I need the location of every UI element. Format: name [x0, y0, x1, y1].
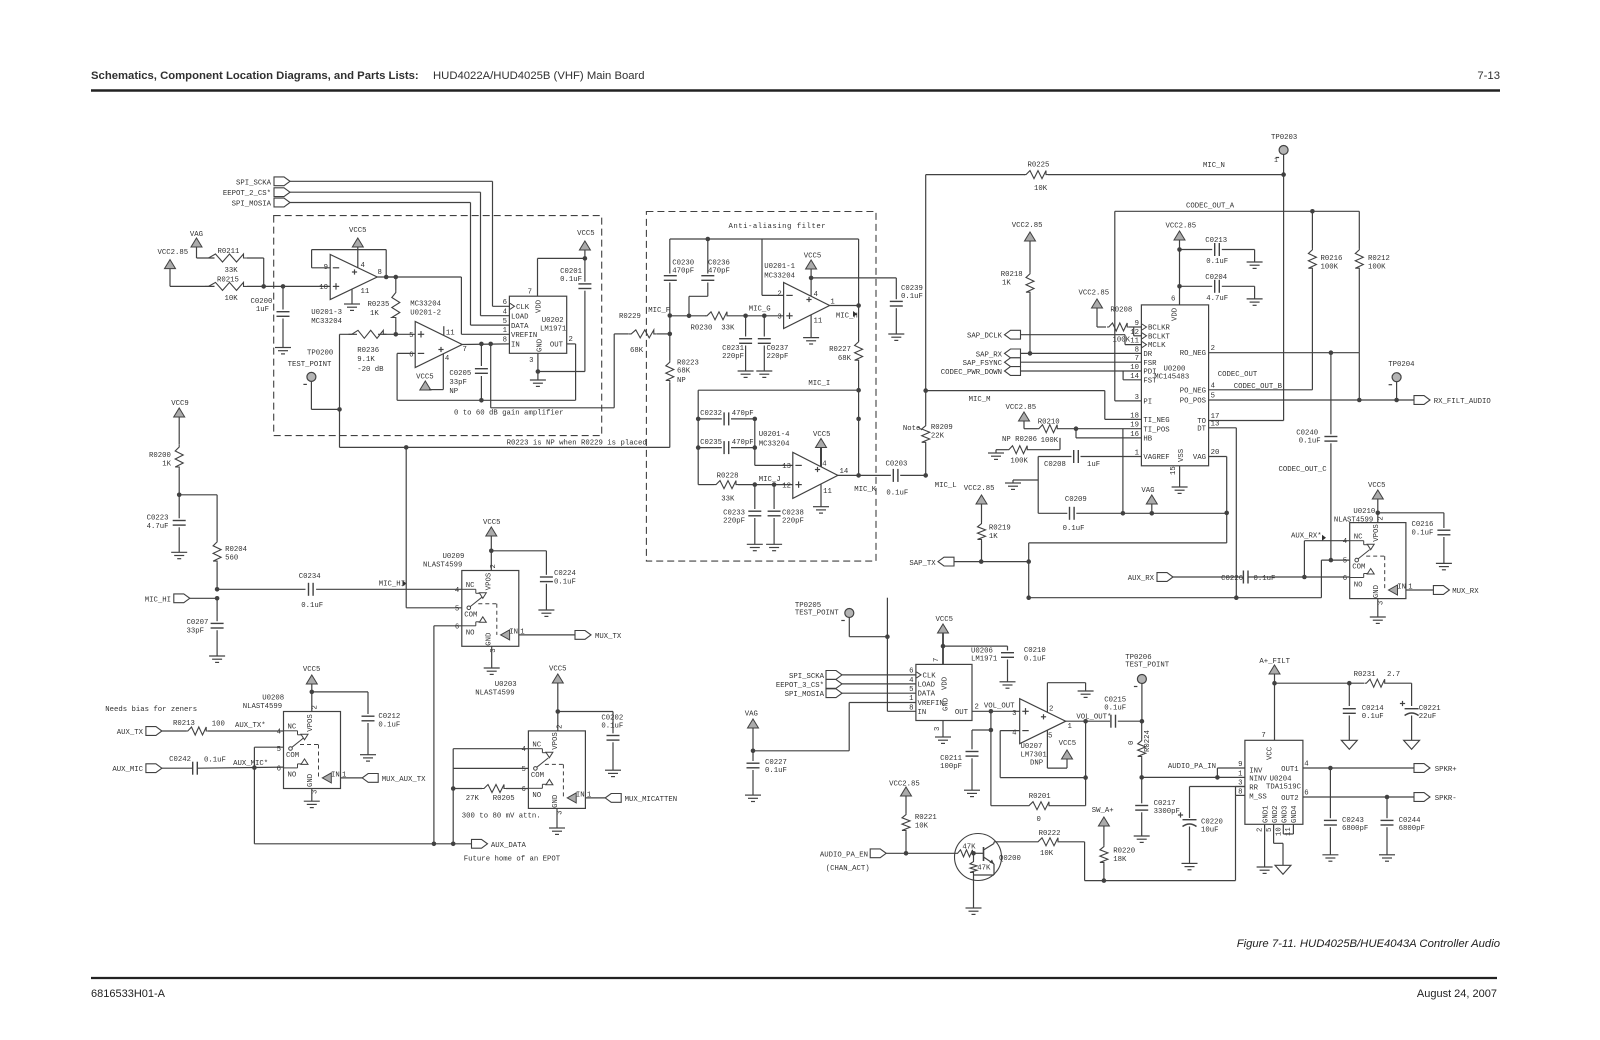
wire BCLKR-BCLKT tie [1134, 327, 1142, 336]
svg-text:1: 1 [503, 327, 508, 335]
wire TP0206 stem [1141, 684, 1143, 721]
wire R0210 to TI_POS [1059, 426, 1141, 431]
svg-text:0.1uF: 0.1uF [554, 579, 576, 587]
svg-text:R0224: R0224 [1144, 729, 1152, 752]
wire vertical to IN [887, 598, 916, 712]
svg-text:C0202: C0202 [601, 715, 623, 723]
svg-text:IN: IN [1397, 584, 1406, 592]
wire TP0204 stem [1396, 382, 1398, 400]
svg-text:MUX_TX: MUX_TX [595, 633, 622, 641]
connector EEPOT_3_CS* [776, 680, 842, 690]
capacitor C0205 [449, 344, 488, 403]
svg-text:RO_NEG: RO_NEG [1180, 350, 1206, 358]
connector EEPOT_2_CS* [223, 188, 290, 198]
svg-text:AUX_MIC: AUX_MIC [112, 766, 143, 774]
capacitor C0240 [1296, 353, 1337, 560]
net label CODEC_OUT_B [1234, 383, 1283, 391]
svg-text:C0227: C0227 [765, 759, 787, 767]
svg-text:SPI_MOSIA: SPI_MOSIA [785, 691, 825, 699]
power VCC2.85 R0218 [1012, 222, 1043, 241]
svg-text:COM: COM [531, 772, 544, 780]
svg-text:MIC_I: MIC_I [808, 380, 830, 388]
power SW_A+ [1092, 807, 1114, 845]
wire U0208 IN to MUX_AUX_TX [341, 777, 363, 779]
wire MIC_F row [670, 314, 706, 319]
svg-text:VCC5: VCC5 [804, 253, 822, 261]
wire AUX_DATA bus [254, 842, 471, 847]
svg-text:C0216: C0216 [1412, 521, 1434, 529]
connector AUX_RX [1128, 573, 1173, 583]
svg-text:0.1uF: 0.1uF [1206, 258, 1228, 266]
svg-text:R0213: R0213 [173, 720, 195, 728]
svg-text:CLK: CLK [923, 672, 937, 680]
svg-text:VCC: VCC [1267, 746, 1275, 760]
capacitor C0201 [560, 258, 591, 371]
wire PO_POS RX_FILT row [1209, 398, 1414, 403]
svg-text:DR: DR [1143, 351, 1152, 359]
net label MIC_F [648, 307, 672, 318]
net label CODEC_OUT_A [1186, 203, 1235, 211]
wire INV jog [1217, 768, 1245, 777]
chassis ground U0204 gnd34 [1275, 865, 1291, 874]
svg-text:VCC5: VCC5 [349, 227, 367, 235]
svg-text:NO: NO [288, 772, 297, 780]
svg-text:DATA: DATA [918, 691, 936, 699]
wire R0223 bottom [669, 382, 671, 447]
power VCC5 U0201-1 [804, 253, 822, 297]
svg-text:MUX_RX: MUX_RX [1452, 588, 1479, 596]
svg-text:220pF: 220pF [723, 518, 745, 526]
net label MIC_N [1203, 162, 1225, 170]
svg-text:4: 4 [909, 677, 914, 685]
svg-text:VPOS: VPOS [307, 714, 315, 732]
svg-text:68K: 68K [838, 355, 852, 363]
svg-text:2: 2 [312, 705, 320, 709]
svg-text:U0206: U0206 [971, 648, 993, 656]
svg-text:100K: 100K [1321, 264, 1339, 272]
svg-text:PI: PI [1143, 399, 1152, 407]
svg-text:LM1971: LM1971 [540, 326, 567, 334]
svg-text:470pF: 470pF [708, 268, 730, 276]
wire U0203 NC COM net [451, 749, 529, 844]
svg-text:NLAST4599: NLAST4599 [423, 561, 462, 569]
dashed box anti-aliasing filter [646, 212, 876, 562]
svg-text:OUT: OUT [955, 709, 969, 717]
resistor R0216 [1308, 211, 1342, 389]
svg-text:VAG: VAG [745, 711, 758, 719]
svg-text:9: 9 [1238, 761, 1242, 769]
U0200 right pin names [1180, 350, 1207, 462]
footer rule [91, 977, 1497, 979]
ground C0243 [1322, 855, 1338, 861]
wire VAGREF corner down [1037, 457, 1039, 514]
wire MIC_I row [698, 390, 858, 484]
capacitor C0232 [700, 410, 754, 425]
wire R0227 to MIC_I [856, 362, 861, 421]
power VCC5 U0210 [1368, 482, 1386, 523]
svg-text:VAGREF: VAGREF [1143, 454, 1169, 462]
header rule [91, 89, 1500, 91]
IC U0208 NLAST4599 box [284, 712, 341, 789]
header title [91, 70, 645, 82]
capacitor C0211 [940, 752, 978, 791]
svg-text:R0209: R0209 [931, 424, 953, 432]
svg-text:TEST_POINT: TEST_POINT [1125, 662, 1169, 670]
wire VDD supply [1177, 240, 1182, 305]
capacitor C0242 [169, 756, 226, 775]
svg-text:8: 8 [1135, 346, 1139, 354]
svg-text:R0205: R0205 [493, 795, 515, 803]
resistor R0204 [213, 495, 248, 590]
power VCC5 U0206 [936, 616, 954, 664]
svg-text:NP: NP [677, 377, 686, 385]
svg-text:7: 7 [463, 346, 467, 354]
svg-text:10uF: 10uF [1201, 827, 1219, 835]
U0206 pin numbers [909, 658, 979, 731]
footer date [1417, 988, 1497, 1000]
wire VCC5 to C0239 [811, 277, 896, 279]
svg-text:C0226: C0226 [1221, 575, 1243, 583]
svg-text:AUX_DATA: AUX_DATA [491, 842, 527, 850]
wire R0231 right [1387, 683, 1412, 706]
svg-text:2.7: 2.7 [1387, 671, 1400, 679]
svg-text:10: 10 [319, 284, 328, 292]
U0200 name [1154, 366, 1189, 382]
svg-text:INV: INV [1249, 768, 1263, 776]
svg-text:COM: COM [286, 752, 299, 760]
ground C0233 [747, 544, 763, 550]
svg-text:BCLKT: BCLKT [1148, 333, 1171, 341]
resistor R0225 [1024, 162, 1049, 194]
svg-text:C0212: C0212 [378, 713, 400, 721]
pin stub U0201-2 pin11 [443, 326, 445, 335]
resistor R0228 [698, 473, 793, 504]
capacitor C0216 [1412, 521, 1451, 563]
note future home [464, 856, 561, 864]
svg-text:TDA1519C: TDA1519C [1266, 784, 1302, 792]
svg-text:VCC5: VCC5 [549, 666, 567, 674]
svg-text:10K: 10K [225, 295, 239, 303]
svg-text:5: 5 [909, 686, 913, 694]
wire MOSIA to DATA [842, 692, 916, 694]
ground C0217 [1134, 836, 1150, 842]
ground C0220 [1182, 863, 1198, 869]
svg-text:11: 11 [814, 318, 823, 326]
svg-text:33K: 33K [225, 267, 239, 275]
wire MIC_HI to U0209 COM [406, 447, 462, 607]
svg-text:VPOS: VPOS [1373, 524, 1381, 542]
svg-text:C0200: C0200 [251, 298, 273, 306]
svg-text:4: 4 [1343, 538, 1348, 546]
label gain amplifier [454, 410, 563, 418]
svg-text:4: 4 [277, 728, 282, 736]
wire SW_A+ row [1085, 878, 1236, 883]
svg-text:-20 dB: -20 dB [357, 366, 384, 374]
resistor R0230 [691, 312, 735, 333]
svg-text:R0227: R0227 [829, 346, 851, 354]
svg-text:5: 5 [522, 766, 526, 774]
svg-text:AUX_TX*: AUX_TX* [235, 722, 266, 730]
svg-text:C0209: C0209 [1065, 496, 1087, 504]
svg-text:R0204: R0204 [225, 546, 248, 554]
svg-text:100K: 100K [1368, 264, 1386, 272]
svg-text:GND: GND [307, 773, 315, 787]
svg-text:6: 6 [909, 668, 913, 676]
IC U0202 LM1971 box [509, 296, 566, 353]
svg-text:SAP_TX: SAP_TX [909, 560, 936, 568]
power VCC5 U0203 [549, 666, 567, 731]
svg-text:R0218: R0218 [1001, 271, 1023, 279]
svg-text:CODEC_OUT_A: CODEC_OUT_A [1186, 203, 1235, 211]
capacitor C0234 [299, 573, 323, 610]
resistor R0201 [991, 793, 1086, 824]
ground C0210 [1000, 682, 1016, 688]
svg-text:6800pF: 6800pF [1399, 825, 1425, 833]
svg-text:R0211: R0211 [218, 248, 241, 256]
svg-text:BCLKR: BCLKR [1148, 325, 1171, 333]
svg-text:5: 5 [1211, 393, 1215, 401]
svg-text:0.1uF: 0.1uF [1362, 713, 1384, 721]
svg-text:1: 1 [1274, 157, 1278, 164]
capacitor C0207 [211, 598, 224, 656]
svg-text:3: 3 [1135, 394, 1139, 402]
svg-text:U0201-1: U0201-1 [764, 263, 795, 271]
svg-text:VDD: VDD [536, 299, 544, 313]
wire EEPOT to LOAD [842, 683, 916, 685]
capacitor C0213 [1180, 237, 1255, 266]
wire VCC to C0216 [1378, 513, 1444, 528]
svg-text:8: 8 [378, 269, 382, 277]
wire C0209 bus [1038, 511, 1227, 516]
svg-text:4: 4 [503, 309, 508, 317]
connector SPI_SCKA [236, 177, 290, 187]
svg-text:VCC5: VCC5 [416, 374, 434, 382]
svg-text:NINV: NINV [1249, 776, 1267, 784]
ground C0207 [209, 656, 225, 662]
svg-text:2: 2 [1049, 706, 1053, 714]
svg-text:C0203: C0203 [886, 461, 908, 469]
svg-text:TI_POS: TI_POS [1143, 426, 1170, 434]
ground U0201-4 [813, 507, 829, 513]
svg-text:8: 8 [503, 337, 507, 345]
svg-text:3: 3 [312, 790, 320, 794]
U0202 pin numbers [503, 289, 573, 366]
svg-text:1K: 1K [989, 533, 998, 541]
capacitor C0237 [758, 316, 789, 371]
capacitor C0226 [1221, 571, 1275, 584]
wire SAP_RX to DR [1021, 351, 1142, 356]
wire U0201-3 out to VREFIN [386, 277, 509, 334]
svg-text:C0220: C0220 [1201, 819, 1223, 827]
U0200 VDD VSS [1170, 296, 1186, 476]
svg-text:U0204: U0204 [1270, 776, 1293, 784]
svg-text:AUDIO_PA_IN: AUDIO_PA_IN [1168, 763, 1216, 771]
svg-text:9: 9 [1135, 320, 1139, 328]
svg-text:3: 3 [1238, 780, 1242, 788]
connector SAP_DCLK [967, 330, 1021, 340]
svg-text:RX_FILT_AUDIO: RX_FILT_AUDIO [1434, 398, 1492, 406]
svg-text:R0236: R0236 [357, 347, 379, 355]
svg-text:GND: GND [485, 632, 493, 646]
svg-text:5: 5 [455, 605, 459, 613]
svg-text:10K: 10K [1040, 850, 1054, 858]
svg-text:AUX_TX: AUX_TX [117, 729, 144, 737]
svg-text:0.1uF: 0.1uF [1063, 525, 1085, 533]
U0204 gnd pin names [1263, 805, 1300, 823]
svg-text:6: 6 [1171, 296, 1175, 304]
svg-text:100pF: 100pF [940, 763, 962, 771]
IC U0203 NLAST4599 box [528, 731, 585, 809]
dashed box 0-60dB gain amplifier [274, 216, 602, 436]
svg-text:3: 3 [529, 357, 533, 365]
wire R0222 right [1060, 842, 1085, 881]
IC U0209 interior [423, 553, 525, 653]
svg-text:R0212: R0212 [1368, 255, 1390, 263]
svg-text:R0229: R0229 [619, 313, 641, 321]
capacitor C0233 [723, 485, 761, 545]
svg-text:VCC5: VCC5 [577, 230, 595, 238]
resistor R0231 [1354, 671, 1401, 687]
capacitor C0208 [1044, 450, 1100, 469]
capacitor C0209 [1063, 496, 1087, 533]
wire plus input row [340, 332, 416, 337]
svg-text:5: 5 [503, 318, 507, 326]
ground C0239 [888, 334, 904, 340]
svg-text:C0231: C0231 [722, 345, 745, 353]
svg-text:GND: GND [552, 794, 560, 808]
resistor R0223 [666, 334, 699, 385]
svg-text:OUT2: OUT2 [1281, 795, 1299, 803]
IC U0200 MC145483 box [1141, 305, 1208, 466]
power VCC5 U0207 [1047, 731, 1076, 769]
svg-text:R0235: R0235 [368, 301, 390, 309]
svg-text:5: 5 [409, 332, 413, 340]
label C0207 [187, 619, 209, 636]
wire feedback U0207 [1000, 721, 1088, 806]
net label AUX_TX* [235, 722, 266, 730]
wire R0211 to node [247, 258, 264, 286]
ground U0202 [530, 380, 546, 386]
header page number [1477, 70, 1500, 82]
svg-text:NO: NO [1354, 581, 1363, 589]
svg-text:C0237: C0237 [767, 345, 789, 353]
svg-text:GND: GND [537, 338, 545, 352]
net label MIC_HI [379, 581, 407, 589]
svg-text:2: 2 [490, 564, 498, 568]
connector AUX_MIC [112, 764, 162, 774]
svg-text:TP0200: TP0200 [307, 350, 333, 358]
svg-text:TI_NEG: TI_NEG [1143, 417, 1169, 425]
svg-text:MIC_M: MIC_M [969, 396, 991, 404]
power VCC2.85 left [158, 249, 189, 269]
svg-text:0.1uF: 0.1uF [378, 722, 400, 730]
svg-text:AUX_MIC*: AUX_MIC* [233, 760, 268, 768]
svg-text:C0236: C0236 [708, 260, 730, 268]
svg-text:VCC5: VCC5 [936, 616, 954, 624]
svg-text:MIC_F: MIC_F [648, 307, 670, 315]
svg-text:VCC9: VCC9 [171, 400, 189, 408]
wire IN node down to R0229 row [491, 344, 615, 408]
svg-text:100K: 100K [1010, 458, 1028, 466]
wire SAP_TX row [954, 559, 1029, 564]
capacitor C0223 [147, 495, 186, 553]
capacitor C0230 [664, 260, 694, 334]
wire SPI_SCKA to U0202 CLK [290, 181, 509, 306]
wire VSS ground [1172, 466, 1188, 494]
wire R0208 to BCLKR [1129, 326, 1141, 328]
resistor R0227 [829, 340, 863, 363]
svg-text:4: 4 [1304, 760, 1309, 768]
wire C0232 feedback row [696, 417, 757, 422]
svg-text:TEST_POINT: TEST_POINT [288, 361, 332, 369]
capacitor C0235 [700, 439, 754, 454]
wire OUT1 SPKR+ [1303, 766, 1414, 771]
connector MUX_RX [1433, 586, 1479, 596]
ground C0211 [964, 790, 980, 796]
wire C0215 right [1118, 719, 1144, 724]
wire MIC_HI stub [190, 587, 220, 601]
capacitor C0239 [890, 278, 923, 334]
wire VAGREF row [1038, 456, 1141, 458]
ground U0208 [304, 789, 320, 808]
svg-text:VCC5: VCC5 [1368, 482, 1386, 490]
svg-text:7: 7 [1261, 732, 1265, 740]
svg-text:C0208: C0208 [1044, 461, 1066, 469]
wire AUX_MIC to C0242 [162, 767, 193, 769]
svg-text:LOAD: LOAD [918, 681, 936, 689]
wire MIC_G row [729, 314, 784, 319]
ground U0210 [1370, 599, 1386, 624]
svg-text:220pF: 220pF [767, 353, 789, 361]
net label CODEC_OUT [1218, 371, 1258, 379]
svg-text:470pF: 470pF [732, 439, 754, 447]
resistor R0222 [1036, 830, 1061, 858]
connector SPKR- [1414, 793, 1457, 803]
power VAG 2 [745, 711, 759, 729]
svg-text:IN: IN [511, 341, 520, 349]
wire to R0229 [614, 334, 629, 408]
svg-text:3: 3 [1378, 601, 1386, 605]
svg-text:C0221: C0221 [1419, 705, 1442, 713]
svg-text:7-13: 7-13 [1477, 70, 1500, 82]
svg-text:VCC2.85: VCC2.85 [1079, 290, 1110, 298]
svg-text:2: 2 [1211, 345, 1215, 353]
resistor R0221 [902, 796, 937, 853]
svg-text:4: 4 [361, 262, 366, 270]
svg-text:4: 4 [822, 461, 827, 469]
svg-text:C0204: C0204 [1205, 274, 1228, 282]
svg-text:R0223: R0223 [677, 360, 699, 368]
svg-text:SW_A+: SW_A+ [1092, 807, 1114, 815]
svg-text:VCC2.85: VCC2.85 [964, 485, 995, 493]
svg-text:U0203: U0203 [495, 681, 517, 689]
svg-text:0.1uF: 0.1uF [204, 757, 226, 765]
IC U0210 interior [1334, 508, 1413, 605]
svg-text:18K: 18K [1113, 856, 1127, 864]
wire OUT down to R0201 [989, 711, 994, 805]
note needs bias [105, 706, 197, 714]
svg-text:100: 100 [212, 721, 225, 729]
resistor R0229 [619, 313, 656, 355]
wire note row [340, 445, 670, 450]
power VCC2.85 VDD [1166, 223, 1197, 241]
wire AUX_TX* to NC [208, 730, 284, 732]
svg-text:0: 0 [1037, 816, 1041, 824]
svg-text:MCLK: MCLK [1148, 342, 1166, 350]
svg-text:C0234: C0234 [299, 573, 322, 581]
svg-text:COM: COM [464, 611, 477, 619]
wire C0226 to NO [1248, 575, 1350, 580]
